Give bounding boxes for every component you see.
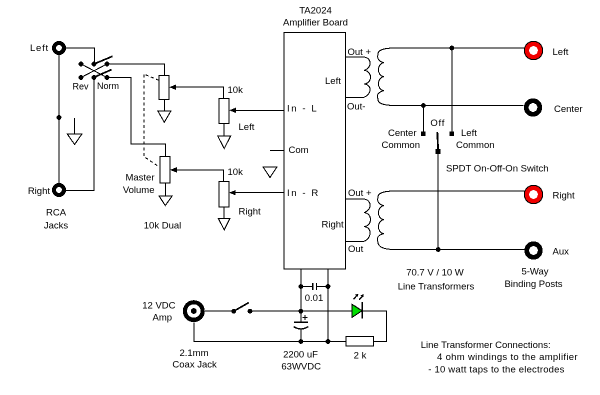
switch S3 power — [231, 303, 252, 314]
ground at jacks — [67, 118, 82, 145]
svg-text:5-Way: 5-Way — [521, 267, 548, 278]
wire T1 secondary top to Left post — [393, 47, 524, 49]
ground at Com — [263, 167, 277, 177]
transformer T2 secondary — [377, 191, 395, 250]
transformer T1 primary — [346, 57, 371, 98]
label 12 VDC Amp — [142, 301, 175, 324]
svg-text:Right: Right — [28, 186, 51, 197]
node junction — [299, 284, 304, 289]
wire Left jack to reverse switch — [66, 48, 94, 62]
wire jack ground bus — [58, 55, 60, 183]
svg-text:Aux: Aux — [553, 247, 570, 258]
node junction — [326, 284, 331, 289]
wire J3 to power switch — [205, 310, 234, 312]
svg-text:Left: Left — [461, 128, 477, 139]
svg-text:70.7 V / 10 W: 70.7 V / 10 W — [406, 268, 464, 279]
node junction — [449, 46, 454, 51]
wire R1 wiper to In - L — [235, 109, 285, 111]
terminal Center Common — [421, 131, 426, 136]
wire R2 wiper to In - R — [234, 192, 284, 194]
wire switch to volume pot right gang — [107, 77, 165, 156]
node junction — [326, 339, 331, 344]
pin stub Com — [270, 149, 284, 151]
svg-text:Center: Center — [388, 128, 417, 139]
svg-text:Norm: Norm — [97, 81, 119, 91]
wire junction to Center Common terminal — [422, 106, 424, 132]
label Master Volume — [123, 173, 155, 197]
binding post Aux (black) — [524, 241, 542, 259]
wire junction to Left Common terminal — [451, 48, 453, 132]
svg-text:Out: Out — [348, 244, 364, 255]
svg-text:2 k: 2 k — [354, 351, 367, 362]
ground below R2 — [218, 207, 230, 230]
svg-text:RCA: RCA — [46, 208, 67, 219]
svg-text:Right: Right — [239, 207, 262, 218]
svg-text:Left: Left — [239, 122, 255, 133]
transformer T2 primary — [346, 199, 371, 242]
svg-text:Binding Posts: Binding Posts — [504, 279, 562, 290]
svg-text:Off: Off — [430, 118, 445, 129]
wire switch to volume pot left gang — [107, 64, 164, 76]
note Line Transformer Connections — [421, 340, 578, 376]
svg-text:Volume: Volume — [123, 185, 155, 196]
label RCA Jacks — [44, 208, 69, 232]
binding post Center (black) — [524, 98, 542, 116]
svg-text:Right: Right — [322, 220, 345, 231]
wire S2 pole to Aux bus — [437, 151, 439, 249]
wire T2 secondary bottom to Aux post — [393, 249, 524, 251]
switch S2 SPDT lever — [436, 132, 439, 151]
wire S3 to V+ rail — [250, 310, 352, 312]
node junction — [299, 339, 304, 344]
svg-text:4 ohm windings to the amplifie: 4 ohm windings to the amplifier — [437, 352, 578, 363]
svg-text:Master: Master — [125, 173, 154, 184]
capacitor C2 2200uF electrolytic — [294, 315, 309, 342]
svg-text:In - L: In - L — [287, 103, 318, 114]
label Left Common — [456, 128, 495, 151]
svg-text:12 VDC: 12 VDC — [142, 301, 175, 312]
board GND pin line — [327, 269, 329, 342]
wire T2 secondary top to Right post — [393, 190, 524, 192]
svg-text:Amp: Amp — [153, 313, 173, 324]
ground below R1 — [218, 123, 231, 148]
svg-text:Com: Com — [289, 145, 309, 156]
potentiometer R2 10k trim right — [219, 181, 236, 207]
svg-text:10k Dual: 10k Dual — [144, 221, 182, 232]
node junction — [436, 247, 441, 252]
switch S2 pole terminal — [436, 149, 441, 154]
svg-text:Jacks: Jacks — [44, 221, 69, 232]
svg-text:Left: Left — [30, 43, 49, 54]
svg-text:In - R: In - R — [287, 188, 320, 199]
svg-text:Amplifier Board: Amplifier Board — [283, 18, 348, 29]
svg-text:0.01: 0.01 — [305, 293, 324, 304]
svg-text:Out +: Out + — [348, 188, 372, 199]
svg-text:2200 uF: 2200 uF — [283, 349, 318, 360]
svg-text:Left: Left — [553, 47, 569, 58]
potentiometer VR1b 10k master volume right gang — [160, 157, 177, 184]
svg-text:10k: 10k — [228, 167, 244, 178]
RCA jack J1 Left — [52, 41, 66, 55]
node ground tap — [57, 115, 62, 120]
svg-text:63WVDC: 63WVDC — [281, 361, 321, 372]
board V+ pin line — [300, 269, 302, 322]
node junction — [421, 103, 426, 108]
svg-text:Center: Center — [554, 104, 583, 115]
dashed gang link dual pot — [144, 74, 160, 167]
capacitor C1 0.01 — [301, 283, 328, 290]
LED D1 green — [352, 302, 362, 318]
svg-text:Common: Common — [456, 140, 495, 151]
svg-text:Left: Left — [325, 76, 341, 87]
binding post Left (red) — [524, 41, 542, 59]
svg-text:Line Transformer Connections:: Line Transformer Connections: — [421, 340, 551, 351]
potentiometer VR1a 10k volume left gang — [159, 75, 176, 99]
resistor R3 2k — [346, 336, 373, 346]
ground below VR1a — [158, 99, 171, 122]
DC jack J3 2.1mm — [183, 300, 205, 322]
ground below VR1b — [159, 183, 172, 205]
wire T1 secondary bottom to Center post — [393, 105, 524, 107]
svg-text:SPDT On-Off-On Switch: SPDT On-Off-On Switch — [446, 164, 549, 175]
svg-text:TA2024: TA2024 — [299, 6, 332, 17]
potentiometer R1 10k trim left — [219, 99, 236, 124]
wire VR1a wiper to R1 — [175, 87, 224, 98]
label Center Common — [381, 128, 420, 151]
svg-text:- 10 watt taps to the electrod: - 10 watt taps to the electrodes — [428, 365, 564, 376]
svg-text:2.1mm: 2.1mm — [179, 348, 208, 359]
transformer T1 secondary — [377, 48, 395, 106]
terminal Left Common — [450, 131, 455, 136]
binding post Right (red) — [524, 185, 542, 203]
LED light arrows — [354, 294, 364, 300]
node junction — [299, 309, 304, 314]
svg-text:Line Transformers: Line Transformers — [398, 281, 475, 292]
amplifier board U1 — [284, 32, 346, 268]
wire ground rail — [194, 322, 346, 341]
svg-text:Out +: Out + — [348, 47, 372, 58]
svg-text:Out-: Out- — [347, 102, 365, 113]
wire LED cathode to R3 — [362, 311, 386, 341]
RCA jack J2 Right — [52, 183, 66, 197]
svg-text:10k: 10k — [228, 85, 244, 96]
wire VR1b wiper to R2 — [175, 170, 223, 181]
svg-text:Right: Right — [553, 191, 576, 202]
svg-text:Common: Common — [381, 140, 420, 151]
svg-text:Coax Jack: Coax Jack — [172, 360, 217, 371]
svg-text:Rev: Rev — [72, 82, 89, 92]
wire Right jack to reverse switch — [66, 80, 94, 191]
switch S1 DPDT Rev/Norm — [79, 56, 113, 80]
